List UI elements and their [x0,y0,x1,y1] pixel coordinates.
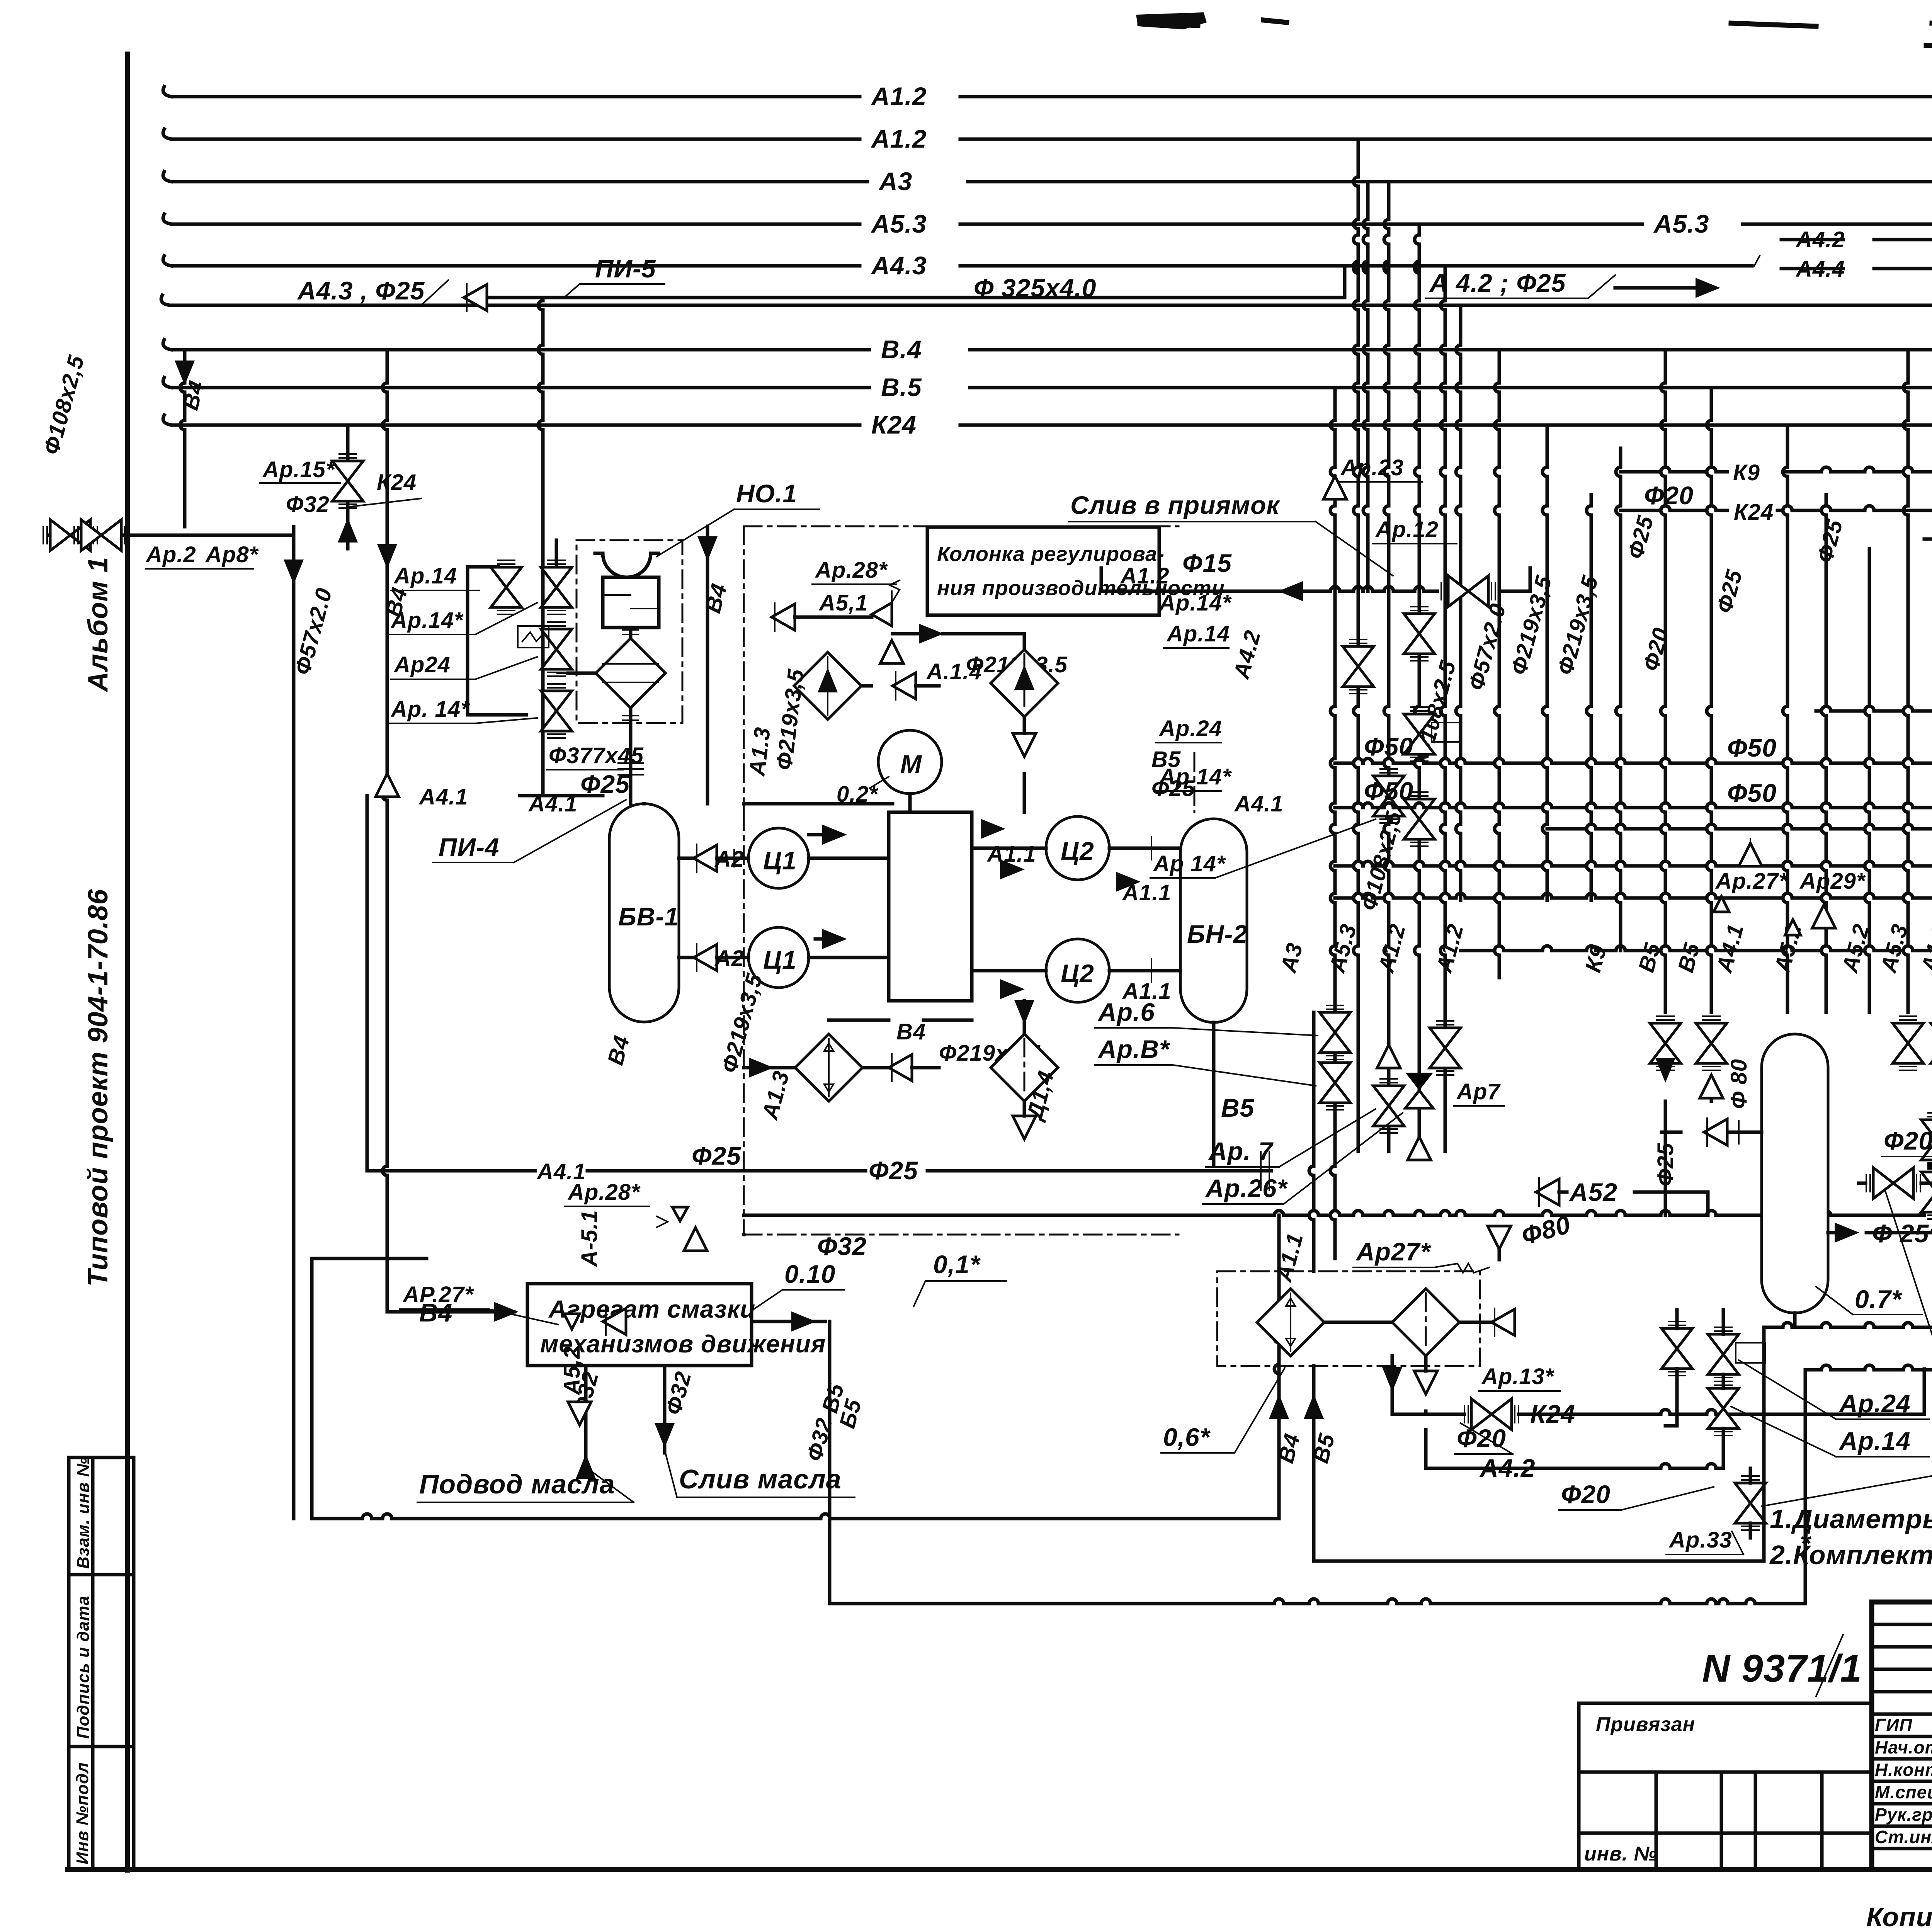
relief valve Ар.28* [872,603,892,626]
wire tank to filter [629,628,633,638]
svg-text:А4.3: А4.3 [871,251,927,280]
svg-text:Ар.2: Ар.2 [145,542,196,567]
bundle pipe x=3740 [1444,266,1447,301]
arrow А5.1 [772,603,795,631]
pipe Слив [663,1366,667,1453]
svg-text:Привязан: Привязан [1596,1713,1695,1736]
wire d2 down [1023,717,1026,733]
wires Ц1 to box [809,857,889,860]
svg-text:Нач.отд.: Нач.отд. [1875,1737,1932,1757]
svg-text:А-5.1: А-5.1 [577,1210,602,1267]
svg-text:А4.2: А4.2 [1479,1454,1535,1482]
svg-text:А52: А52 [1569,1178,1617,1206]
svg-text:Ар.6: Ар.6 [1097,998,1155,1026]
svg-text:Ар.14: Ар.14 [393,563,457,588]
wires down from valve grp [1664,1101,1667,1215]
collector y1840 [1816,709,1821,713]
svg-text:Альбом 1: Альбом 1 [83,557,114,692]
collector Ф50 y2090 [1335,806,1354,810]
wire В4 to box [387,1310,514,1314]
svg-text:А5,2: А5,2 [560,1346,585,1396]
wire ПИ-5 horizontal [488,296,1345,299]
flow arrow up [338,518,358,543]
flow arrow down on Ф57 line [284,560,304,584]
tri open d2r [1492,1308,1515,1336]
svg-text:Рук.гр.: Рук.гр. [1875,1804,1932,1825]
motor М circle [878,730,942,794]
Ар.23 arrow [1323,476,1347,499]
svg-text:А4.4: А4.4 [1795,257,1845,282]
outer loop riser x4565 [1762,1327,1766,1561]
bus line К24 [172,423,860,427]
svg-text:Ф50: Ф50 [1727,779,1777,807]
wire into 0.7 [1727,1131,1762,1134]
svg-text:Инв №подл: Инв №подл [73,1762,92,1864]
check valve on ПИ-5 line [464,284,487,311]
valve Ар.14* stack [541,560,572,614]
svg-text:А1.2: А1.2 [1373,921,1410,976]
drawing frame left border [125,54,130,1870]
wire out of box right [752,1320,825,1323]
svg-text:Агрегат смазки: Агрегат смазки [548,1295,755,1323]
bundle pipe x=4938 [1906,350,1910,383]
svg-text:А1.3: А1.3 [744,726,775,778]
svg-text:В4: В4 [896,1019,926,1044]
svg-text:Ар.28*: Ар.28* [815,558,888,583]
svg-text:0,6*: 0,6* [1163,1423,1211,1451]
svg-text:Ф108х2,5: Ф108х2,5 [39,353,89,457]
filter diamond [596,638,665,708]
valve Ар.33 bottom [1735,1476,1766,1530]
compressor frame box [889,812,972,1001]
bundle pipe x=4004 [1546,425,1549,467]
svg-text:М: М [900,750,922,778]
svg-text:Ф20: Ф20 [1884,1126,1932,1155]
svg-text:Ф377х45: Ф377х45 [549,743,644,768]
svg-text:В5: В5 [1221,1094,1255,1122]
collector y2145 [1547,827,1587,831]
svg-text:Взам. инв №: Взам. инв № [74,1457,93,1569]
svg-text:В.5: В.5 [881,373,922,401]
heat exch diamond 2 [991,650,1058,717]
filled valve Ар.26* [1405,1073,1433,1108]
diamond 4 lower right [991,1034,1058,1101]
svg-text:Ар7: Ар7 [1456,1079,1501,1104]
dash-dot boundary low [744,1234,1179,1236]
bundle pipe x=3540 [1366,182,1370,219]
wire d2 top [1023,634,1026,650]
bundle pipe x=4194 [1619,448,1622,467]
open tri right d3 [889,1054,912,1082]
svg-text:ПИ-5: ПИ-5 [595,254,656,283]
svg-text:А5.3: А5.3 [1324,921,1361,976]
svg-text:1.Диаметры коллекторов ст.обще: 1.Диаметры коллекторов ст.общестанционну… [1770,1504,1932,1534]
open tri below Ар.26* [1408,1137,1431,1160]
horizontal valve Ф20 [1866,1168,1920,1199]
leader отбор [1886,1192,1932,1464]
inner loop riser x4672 [1804,1370,1807,1604]
wire motor down [908,794,912,812]
valve [1373,769,1404,823]
svg-text:К9: К9 [1733,460,1760,485]
svg-text:Ф25: Ф25 [1812,517,1848,566]
open triangle up [376,774,399,797]
wire 0.7 bottom [1793,1313,1797,1327]
svg-text:А4.3 , Ф25: А4.3 , Ф25 [297,276,425,305]
pipe Подвод [584,1366,588,1468]
svg-text:*: * [1800,1528,1811,1558]
А1.1 upper label [981,819,1005,839]
svg-text:Ф219х3,5: Ф219х3,5 [771,668,809,772]
svg-text:Ст.инж: Ст.инж [1875,1827,1932,1847]
wire bottom y4040 [1314,1560,1764,1563]
svg-text:А1.2: А1.2 [871,82,927,111]
wire Ф25 down from БН-2 [1212,1121,1216,1144]
svg-text:Типовой проект 904-1-70.86: Типовой проект 904-1-70.86 [83,889,114,1287]
vessel 0.7* [1762,1034,1828,1313]
wire stack 4460 [1722,1310,1725,1334]
bus line main Ф325х4.0 [170,304,1932,307]
svg-text:Ар.14: Ар.14 [1838,1427,1911,1455]
svg-text:Ф 80: Ф 80 [1726,1059,1752,1109]
bundle pipe x=4726 [1825,495,1828,506]
svg-text:Ф32: Ф32 [817,1232,867,1260]
valve stack x4460 upper [1708,1327,1739,1381]
svg-text:К24: К24 [1734,500,1774,525]
svg-text:Ар. 7: Ар. 7 [1208,1137,1274,1165]
svg-text:Ар 14*: Ар 14* [1153,851,1226,876]
svg-text:АР.27*: АР.27* [402,1282,474,1307]
wire Ф32 segment [742,1233,746,1236]
valve Ар.8* on А3 line [1320,1056,1350,1110]
wire В4 left long drop [386,350,389,383]
wire В.4 drop left [183,350,187,383]
wire БВ-1 top [643,802,646,806]
svg-text:К24: К24 [871,410,917,439]
label А4.2 right [1781,238,1843,241]
bus line А3 [172,180,867,184]
flow arrow down [175,361,195,385]
valve Ар.2 [43,520,97,551]
svg-text:М.спец.: М.спец. [1875,1782,1932,1802]
svg-text:А1.1: А1.1 [1271,1230,1308,1285]
bundle pipe x=3594 [1387,182,1391,219]
bus line А1.2 (2) [172,138,860,141]
collector y2241 [1335,864,1354,868]
svg-text:А1.1: А1.1 [1122,880,1172,905]
svg-text:Ф57х2.0: Ф57х2.0 [1464,601,1511,693]
wire В4 into machine [706,526,709,804]
cap joints on А4.1 [1261,1151,1269,1190]
wire diamond1 to А1.4 [861,684,871,688]
valve Ар24 stack [541,622,572,676]
heat exch diamond 1 [794,652,861,719]
bus line В.5 [172,386,869,389]
svg-text:Ар.33: Ар.33 [1668,1527,1732,1553]
dash-dot box НО.1 [577,540,682,723]
svg-text:Ар.24: Ар.24 [1158,716,1222,741]
svg-text:В.4: В.4 [881,335,922,364]
wire А4.1 long [367,1169,535,1173]
svg-text:Ар24: Ар24 [393,652,451,677]
В5 wire БН-2 bottom [1212,1022,1216,1166]
svg-text:НО.1: НО.1 [736,479,797,508]
out arrows Ц1 lower [822,929,847,949]
svg-text:Ар.24: Ар.24 [1838,1389,1911,1418]
valve Ар.6 on А3 line [1320,1005,1350,1060]
bundle pipe x=4626 [1786,425,1789,467]
open tri left of 0.7 [1704,1118,1727,1146]
wire К24 drop [346,425,350,460]
svg-text:А5.3: А5.3 [1653,209,1709,238]
svg-text:Ар8*: Ар8* [205,542,259,567]
relief valve low [672,1207,688,1221]
svg-text:Ар.12: Ар.12 [1375,517,1439,542]
flow arrow d4 top [1014,1000,1034,1025]
К9 short line [1621,470,1661,474]
svg-text:Ф219х3,5: Ф219х3,5 [717,971,767,1076]
out arrows Ц1 upper [822,825,847,845]
svg-text:N 9371/1: N 9371/1 [1702,1647,1862,1690]
svg-text:А5,1: А5,1 [818,590,868,616]
filter inlet arrow [568,672,596,675]
valve on А1.2 line [1373,1079,1404,1133]
wire corner down [292,535,296,1519]
svg-text:Подпись и дата: Подпись и дата [74,1595,93,1739]
svg-text:Ф32: Ф32 [802,1415,837,1464]
diamond 3 lower left [795,1034,862,1101]
bus line В.4 [172,348,869,352]
bundle pipe x=4838 [1868,549,1871,706]
svg-text:Копировал Терехова кальку св: Копировал Терехова кальку сверил Шась [1866,1902,1932,1932]
dash-dot machine boundary left [743,526,745,812]
bundle pipe x=3455 [1333,388,1337,420]
wires В4 В5 from 0.6 [1277,1366,1281,1519]
svg-text:Ар.В*: Ар.В* [1097,1035,1170,1063]
valve grp x4310 [1650,1016,1681,1070]
Ц2 lower out [1109,969,1180,973]
А1.1 long wire [744,1214,1274,1217]
svg-text:Ф57х2.0: Ф57х2.0 [290,585,337,678]
svg-text:К24: К24 [377,470,417,495]
outer loop top y3435 [1764,1326,1783,1329]
wire Ф25 out [1866,1231,1932,1235]
svg-text:Ф219х3,5: Ф219х3,5 [1553,573,1603,678]
svg-text:Ар.26*: Ар.26* [1205,1174,1288,1202]
svg-text:ПИ-4: ПИ-4 [439,833,500,861]
flex joint [618,763,643,775]
svg-text:Ф25: Ф25 [1712,567,1747,616]
svg-text:Ар.15*: Ар.15* [262,457,335,482]
svg-text:А3: А3 [1276,940,1308,976]
cylinder Ц1 lower [748,927,809,988]
valve Ар.14* stack bottom [541,684,572,738]
bundle pipe x=3673 [1418,224,1421,235]
А2 arrows upper [694,844,717,872]
svg-text:Н.контр.: Н.контр. [1875,1760,1932,1780]
svg-text:Ф25: Ф25 [869,1156,918,1185]
svg-text:Ар27*: Ар27* [1355,1237,1431,1266]
valve small box [1404,707,1435,761]
open tri down d2 [1414,1371,1437,1394]
svg-text:А4.2: А4.2 [1228,628,1265,682]
svg-text:0.7*: 0.7* [1855,1285,1903,1313]
inner loop top y3545 [1805,1368,1821,1372]
wire А1.2-Ф15 [1101,590,1271,593]
valve Ар8* [74,520,128,551]
wire across diamonds [1324,1321,1392,1324]
bundle pipe x=3880 [1498,350,1501,383]
callout А52 [1536,1178,1559,1206]
cylinder Ц2 upper [1046,816,1109,880]
collector y2324 [1335,896,1354,900]
cylinder Ц2 lower [1046,939,1109,1002]
svg-text:Слив в приямок: Слив в приямок [1070,491,1281,519]
wire В4 row [829,1019,889,1022]
valve stack x4460 lower [1708,1381,1739,1435]
valve Ар.14 stack top [491,560,522,614]
wire Слив в приямок [1271,590,1330,593]
svg-text:В5: В5 [1673,940,1705,975]
Агрегат смазки box [527,1284,752,1366]
bus line А4.3 [172,264,860,268]
vessel БВ-1 [609,804,679,1022]
svg-text:Ф20: Ф20 [1457,1424,1506,1452]
svg-text:А3: А3 [878,167,912,196]
svg-text:А1.2: А1.2 [1120,563,1170,588]
svg-text:А1.2: А1.2 [1916,921,1932,976]
svg-text:2.Комплект поставки Пензенског: 2.Комплект поставки Пензенского компресс… [1769,1540,1932,1570]
svg-text:Ц2: Ц2 [1061,959,1094,988]
svg-text:Ар.14*: Ар.14* [390,608,464,633]
staff table rows [1872,1600,1932,1604]
wire d3 [744,1066,795,1070]
А4.2 bottom wire [1426,1467,1661,1470]
svg-text:0.10: 0.10 [784,1260,835,1288]
svg-text:Ц1: Ц1 [763,846,797,875]
diamond bl 1 [1257,1289,1324,1356]
svg-text:Ф50: Ф50 [1364,777,1413,805]
svg-text:Ц2: Ц2 [1061,837,1094,865]
diamond2 open tri down [1013,733,1036,757]
wire d2 down arrow [1382,1367,1402,1392]
left stamp box Подпись и дата [69,1575,134,1747]
bundle pipe x=4118 [1590,495,1593,506]
bus line А5.3 [172,223,860,226]
svg-text:Ф15: Ф15 [1182,549,1232,577]
title block outer [1872,1602,1932,1869]
valve grp x4429 [1696,1016,1727,1070]
bundle pipe x=4429 [1710,388,1713,420]
bundle pipe x=3400 [1312,1012,1316,1166]
svg-text:Ар. 14*: Ар. 14* [390,697,470,722]
svg-text:Ф20: Ф20 [1561,1480,1611,1509]
svg-text:Колонка регулирова-: Колонка регулирова- [937,543,1165,566]
svg-text:Ф25: Ф25 [692,1141,741,1170]
cylinder Ц1 upper [748,828,809,888]
svg-text:Ар.14: Ар.14 [1166,621,1230,646]
bus line А1.2 (1) [172,95,860,99]
wires Ц2 to box [972,847,1046,850]
svg-text:инв. №: инв. № [1584,1843,1657,1865]
svg-text:А1.3: А1.3 [757,1068,794,1122]
svg-text:Ф25: Ф25 [1623,513,1658,562]
svg-text:А4.2: А4.2 [1795,227,1845,252]
svg-text:Ф32: Ф32 [286,492,330,517]
partial box around valves [468,567,526,715]
collector y2460 [1461,949,1495,952]
svg-text:БН-2: БН-2 [1187,920,1248,948]
bundle pipe x=3780 [1459,305,1463,345]
wire valve stack vertical [555,540,558,567]
svg-text:Ар.14*: Ар.14* [1158,590,1232,616]
svg-text:Слив масла: Слив масла [679,1464,842,1494]
wire А4.1 horizontal [520,794,603,798]
svg-text:ГИП: ГИП [1875,1715,1912,1735]
0.6 dashdot box [1217,1271,1480,1366]
U intake [603,553,651,577]
left stamp box Взам.инв № [69,1458,134,1575]
svg-text:Ц1: Ц1 [763,946,797,974]
wire down from ПИ-5 to А4.1 [541,298,545,301]
К24 line [1621,509,1661,512]
svg-text:А1.2: А1.2 [871,124,927,153]
valve Ар7 line [1430,1021,1461,1075]
svg-text:А1.1: А1.1 [986,842,1036,867]
А2 arrows lower [694,944,717,971]
svg-text:Ар29*: Ар29* [1799,869,1866,894]
svg-text:Ф20: Ф20 [1638,625,1674,674]
svg-text:Подвод масла: Подвод масла [419,1469,615,1499]
svg-text:В4: В4 [700,581,732,616]
svg-text:Ф25: Ф25 [1930,1066,1932,1114]
svg-text:0,1*: 0,1* [933,1250,981,1279]
wire bw РВД [744,802,893,806]
drawing frame bottom border [68,1867,1932,1872]
small box symbol [518,626,549,648]
oil tank [603,577,659,628]
svg-text:Ар.28*: Ар.28* [567,1180,641,1205]
Ф25 out arrow [1835,1223,1859,1243]
dash-dot machine boundary top [744,526,1179,527]
svg-text:А 4.2 ; Ф25: А 4.2 ; Ф25 [1429,269,1566,297]
wire bottom y3930 [312,1517,362,1520]
dash-dot machine boundary right [1194,753,1196,812]
box Колонка регулирования [927,527,1159,615]
valve grp 4938 [1893,1016,1923,1070]
svg-text:Ар.23: Ар.23 [1340,455,1404,480]
svg-text:Ар.13*: Ар.13* [1481,1364,1554,1389]
wire left border to valves [49,534,128,537]
wire bottom y4150 [830,1602,1274,1605]
drawing frame top border (right part) [1926,43,1932,48]
wire filter down [629,708,633,804]
svg-text:В4: В4 [603,1033,634,1068]
d4 tri down [1013,1116,1036,1139]
svg-text:А4.1: А4.1 [418,784,468,810]
wire А4.1 drop left [366,796,369,1171]
svg-text:А1.2: А1.2 [1431,921,1468,976]
diamond1 out triangle [893,672,916,700]
valve col near 07 a [1921,1113,1932,1167]
svg-text:А5.3: А5.3 [871,209,927,238]
vessel БН-2 [1180,819,1247,1022]
valve Ар.15* on К24 drop [332,454,363,508]
bundle pipe x=3310 [1277,1215,1281,1333]
bundle pipe x=4310 [1664,350,1667,383]
svg-text:Ф50: Ф50 [1727,733,1777,762]
left stamp box Инв № подл [69,1747,134,1869]
